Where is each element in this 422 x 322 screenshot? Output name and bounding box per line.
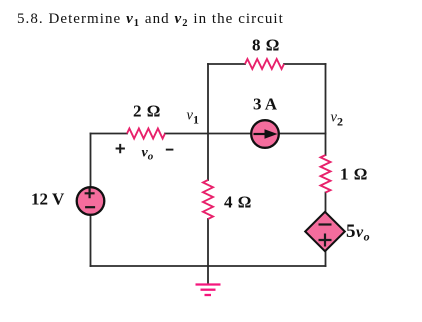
label + of vo: [116, 144, 125, 153]
resistor 2ohm zigzag: [127, 129, 165, 139]
wire top left segment: [208, 63, 245, 65]
svg-text:vo: vo: [142, 146, 154, 163]
svg-text:3 A: 3 A: [253, 95, 278, 114]
resistor 4ohm zigzag: [203, 180, 213, 219]
wire top right segment: [284, 63, 326, 65]
wire middle from 2ohm to right vertical (behind current source): [165, 133, 326, 135]
dependent source 5vo diamond: [305, 212, 345, 251]
label minus of vo: [166, 149, 174, 151]
wire left vertical through 12V source: [90, 134, 92, 267]
voltage source V1 12V: [77, 187, 105, 215]
wire below diamond to bottom: [325, 251, 327, 266]
resistor 1ohm zigzag: [321, 155, 331, 193]
svg-text:8 Ω: 8 Ω: [252, 36, 280, 55]
svg-text:1 Ω: 1 Ω: [340, 165, 368, 184]
resistor 8ohm zigzag: [245, 59, 284, 69]
ground: [196, 285, 221, 296]
wire bottom: [91, 265, 326, 267]
wire between 1ohm and diamond: [325, 193, 327, 213]
svg-text:v2: v2: [331, 110, 343, 129]
svg-text:v1: v1: [187, 108, 199, 127]
svg-text:4 Ω: 4 Ω: [224, 193, 252, 212]
wire right vertical from top corner to 1ohm: [325, 64, 327, 155]
wire left vertical of top loop down through node to 4ohm: [207, 64, 209, 180]
svg-text:5vo: 5vo: [346, 221, 370, 244]
current source I1 3A: [251, 120, 279, 148]
svg-text:2 Ω: 2 Ω: [133, 102, 161, 121]
wire below 4ohm to bottom: [207, 219, 209, 266]
wire ground stem: [207, 266, 209, 285]
svg-text:12 V: 12 V: [31, 190, 65, 209]
svg-text:5.8. Determine v1 and v2 in th: 5.8. Determine v1 and v2 in the circuit: [17, 11, 284, 29]
wire middle left corner to 2ohm: [91, 133, 128, 135]
